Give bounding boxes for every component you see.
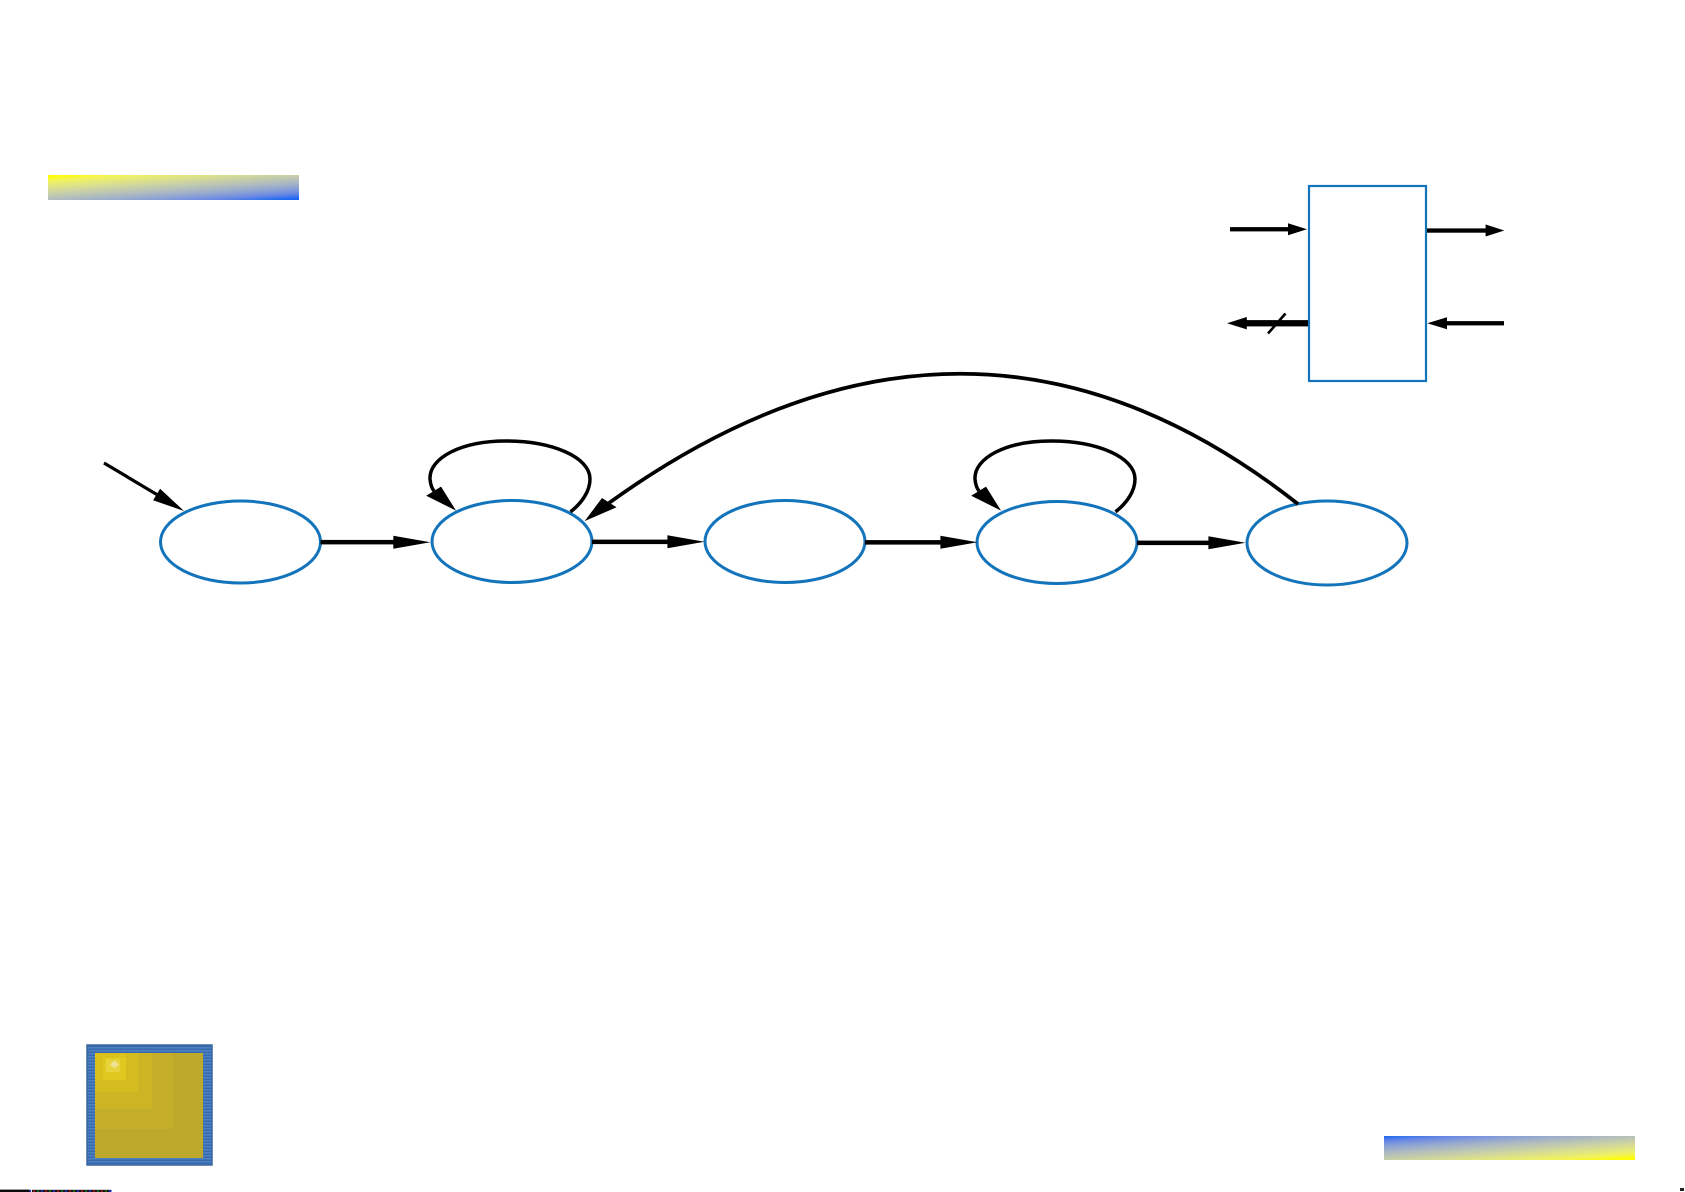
long feedback arc from S4 to S1 — [609, 374, 1298, 504]
input arrow (bottom-right of box) — [1427, 317, 1504, 329]
self-loop on state S1 — [430, 441, 590, 512]
transition arrow S2->S3 — [865, 536, 978, 549]
initial state arrow — [103, 462, 184, 511]
input arrow (top-left of box) — [1230, 223, 1307, 235]
bottom edge black bar — [0, 1190, 30, 1192]
self-loop S1 arrowhead — [426, 487, 456, 511]
block diagram box U1 — [1309, 186, 1426, 381]
state S3 — [977, 502, 1137, 584]
bottom edge multicolour dashed strip — [32, 1190, 112, 1192]
feedback arc arrowhead — [585, 498, 617, 521]
footer gradient bar bottom-right — [1384, 1136, 1635, 1160]
title gradient bar top-left — [48, 175, 299, 200]
transition arrow S3->S4 — [1137, 536, 1246, 549]
bus slash — [1268, 314, 1286, 334]
state S4 — [1247, 501, 1407, 585]
institute logo bottom-left — [87, 1045, 212, 1165]
bus arrow out (bottom-left of box) — [1227, 317, 1308, 329]
state S1 — [432, 501, 592, 583]
self-loop S3 arrowhead — [971, 487, 1001, 511]
output arrow (top-right of box) — [1427, 225, 1504, 237]
bottom-right tiny dot — [1680, 1188, 1684, 1191]
transition arrow S0->S1 — [321, 536, 431, 549]
state S2 — [705, 501, 865, 583]
self-loop on state S3 — [975, 441, 1135, 512]
state S0 — [161, 501, 321, 583]
transition arrow S1->S2 — [592, 535, 705, 548]
